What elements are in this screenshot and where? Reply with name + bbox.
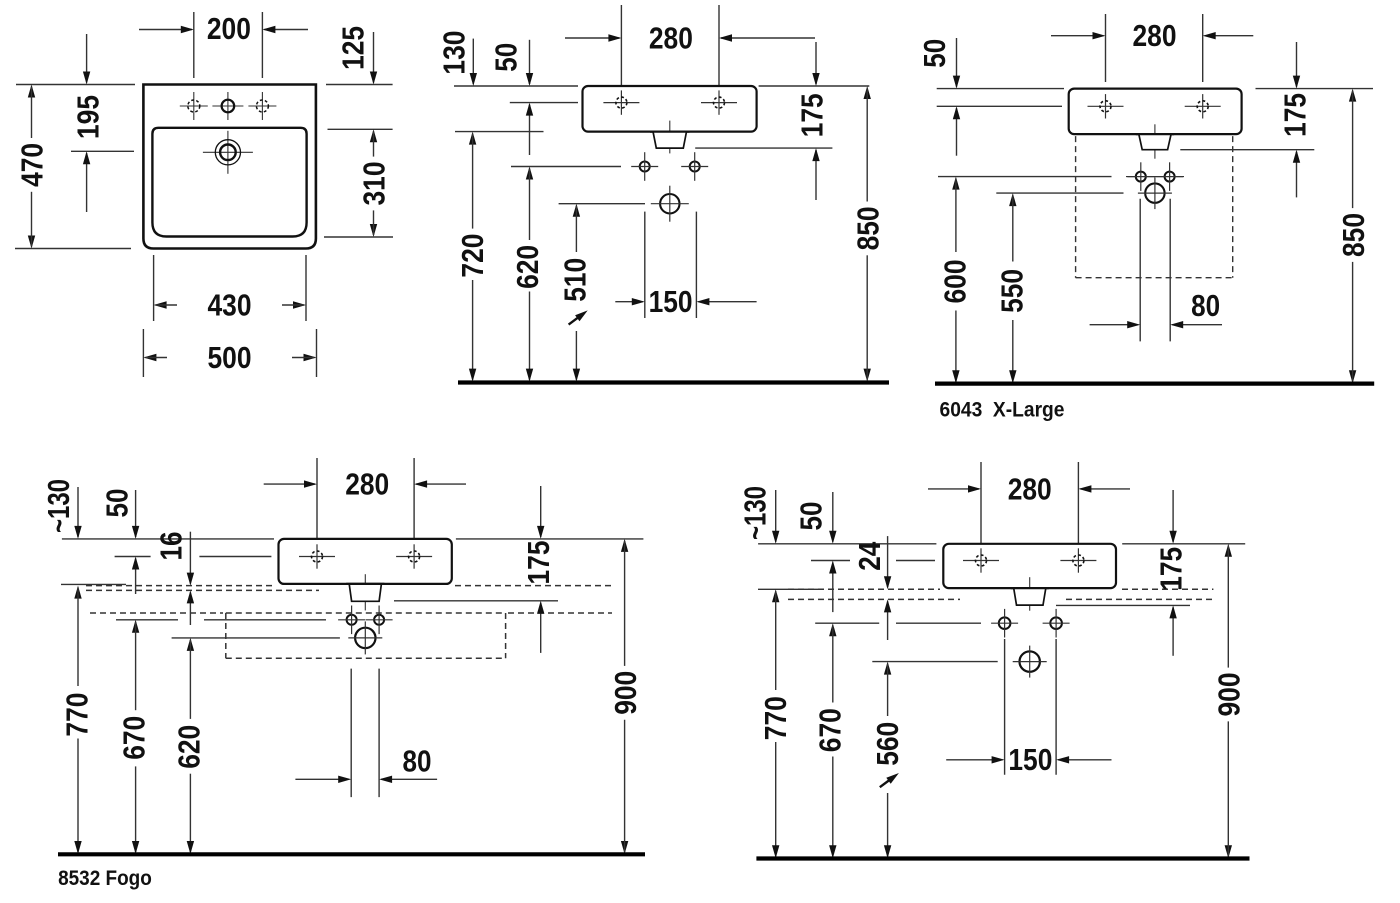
svg-text:430: 430 [208,287,252,322]
svg-text:~130: ~130 [738,486,773,540]
svg-text:770: 770 [59,693,94,737]
svg-text:670: 670 [812,708,847,752]
svg-text:620: 620 [510,245,545,289]
svg-text:670: 670 [116,716,151,760]
svg-text:560: 560 [870,722,905,766]
svg-text:200: 200 [207,11,251,46]
svg-text:8532 Fogo: 8532 Fogo [58,867,152,890]
svg-text:770: 770 [758,696,793,740]
svg-text:50: 50 [489,43,524,72]
svg-text:280: 280 [649,20,693,55]
svg-text:80: 80 [1191,288,1220,323]
svg-text:150: 150 [1008,742,1052,777]
svg-text:175: 175 [1153,547,1188,591]
svg-text:24: 24 [852,541,887,571]
svg-text:280: 280 [1133,18,1177,53]
svg-text:900: 900 [608,671,643,715]
svg-text:50: 50 [793,502,828,531]
svg-text:125: 125 [335,26,370,70]
svg-text:50: 50 [100,489,135,518]
svg-text:500: 500 [208,340,252,375]
svg-text:470: 470 [15,143,50,187]
svg-text:130: 130 [436,31,471,75]
svg-text:80: 80 [403,743,432,778]
svg-text:280: 280 [1008,471,1052,506]
svg-text:850: 850 [1336,213,1371,257]
svg-text:550: 550 [994,269,1029,313]
svg-text:16: 16 [153,532,188,561]
svg-text:280: 280 [345,467,389,502]
svg-text:175: 175 [521,541,556,585]
svg-text:6043 X-Large: 6043 X-Large [940,399,1065,422]
svg-text:~130: ~130 [41,479,76,533]
svg-text:720: 720 [455,234,490,278]
svg-text:175: 175 [794,93,829,137]
svg-text:620: 620 [172,725,207,769]
svg-text:150: 150 [649,284,693,319]
svg-text:175: 175 [1277,93,1312,137]
svg-text:900: 900 [1212,673,1247,717]
svg-text:850: 850 [850,206,885,250]
svg-text:510: 510 [558,258,593,302]
svg-text:50: 50 [917,39,952,68]
svg-text:600: 600 [938,260,973,304]
svg-text:195: 195 [70,95,105,139]
svg-text:310: 310 [357,162,392,206]
